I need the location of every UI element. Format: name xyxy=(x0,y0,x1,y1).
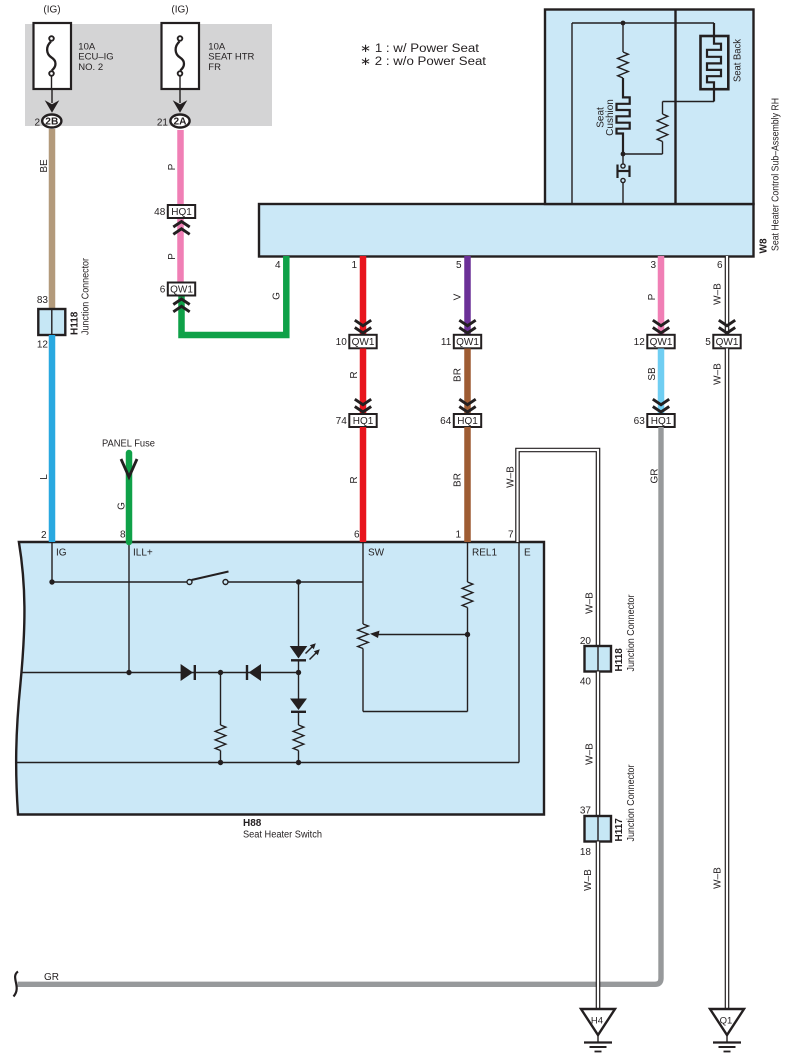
svg-text:GR: GR xyxy=(650,469,661,484)
label W-B mid 1 xyxy=(585,592,596,614)
switch contact xyxy=(187,572,229,585)
node wire B / LED xyxy=(296,670,301,675)
svg-text:2: 2 xyxy=(34,118,40,129)
node diode junction xyxy=(218,670,223,675)
W8 upper box xyxy=(545,10,754,205)
wire W-B right lower xyxy=(725,349,730,1010)
label BE xyxy=(39,159,50,173)
resistor R3 (REL1) xyxy=(462,542,473,635)
label W8 xyxy=(759,238,770,253)
pin 4 label xyxy=(275,260,281,271)
svg-text:Junction Connector: Junction Connector xyxy=(81,257,92,335)
resistor R1 xyxy=(215,725,226,763)
wire LED column upper xyxy=(298,582,300,646)
svg-text:5: 5 xyxy=(456,260,462,271)
svg-text:Seat Heater Switch: Seat Heater Switch xyxy=(243,830,322,841)
junction connector H117 (37/18) xyxy=(585,816,612,842)
chevron up 6 xyxy=(173,299,189,312)
pin 1 label switch xyxy=(455,530,461,541)
svg-text:BE: BE xyxy=(39,159,50,173)
pin 3 label bar xyxy=(650,260,656,271)
svg-text:7: 7 xyxy=(508,530,514,541)
wire R lower xyxy=(360,427,367,542)
node seat cushion bottom xyxy=(621,152,626,157)
wire W-B mid lower xyxy=(596,842,601,1010)
resistor R2 (LED) xyxy=(293,725,304,763)
svg-text:11: 11 xyxy=(441,337,452,348)
fuse 1 lead arrow xyxy=(45,89,60,113)
svg-text:NO. 2: NO. 2 xyxy=(78,62,103,73)
svg-text:PANEL Fuse: PANEL Fuse xyxy=(102,439,155,450)
svg-text:P: P xyxy=(647,293,658,300)
connector 6 QW1 xyxy=(160,283,195,296)
label W-B right 2 xyxy=(713,363,724,385)
label W-B E loop xyxy=(506,466,517,488)
svg-text:64: 64 xyxy=(440,416,452,427)
connector 5 QW1 xyxy=(705,335,740,349)
heater element Seat Cushion xyxy=(617,78,630,153)
wire rheostat loop xyxy=(363,635,468,712)
svg-text:21: 21 xyxy=(157,118,169,129)
pin label SW xyxy=(368,548,385,559)
wire GR xyxy=(18,427,662,984)
chevron down P xyxy=(653,320,669,333)
svg-text:6: 6 xyxy=(160,285,166,296)
label Junction Connector H117 xyxy=(626,764,637,842)
wire BR lower xyxy=(464,427,471,542)
connector 10 QW1 xyxy=(336,335,377,349)
label H88 xyxy=(243,818,262,829)
pin 8 label xyxy=(120,530,126,541)
svg-text:Junction Connector: Junction Connector xyxy=(626,764,637,842)
svg-text:W–B: W–B xyxy=(583,869,594,891)
svg-text:HQ1: HQ1 xyxy=(457,416,478,427)
svg-text:H118: H118 xyxy=(70,311,81,335)
node ILL+ xyxy=(126,670,131,675)
label Junction Connector H118 2 xyxy=(626,594,637,672)
ground Q1 xyxy=(710,1009,744,1052)
label 40 xyxy=(580,677,592,688)
svg-text:1: 1 xyxy=(455,530,461,541)
wire A left xyxy=(52,581,187,583)
thermostat (seat cushion) xyxy=(618,156,630,204)
svg-text:H4: H4 xyxy=(591,1016,603,1027)
label L xyxy=(39,474,50,480)
svg-text:Cushion: Cushion xyxy=(605,99,616,136)
svg-text:P: P xyxy=(167,253,178,260)
svg-text:W–B: W–B xyxy=(713,283,724,305)
note w/ power seat xyxy=(360,43,480,55)
svg-text:1: 1 xyxy=(351,260,357,271)
pin 7 label xyxy=(508,530,514,541)
wire SB xyxy=(658,349,665,415)
label H118 ref 2 xyxy=(614,648,625,672)
node IG xyxy=(49,579,54,584)
pin 6 label bar xyxy=(717,260,723,271)
label Seat Cushion xyxy=(596,99,617,136)
svg-text:Seat Heater Control Sub–Assemb: Seat Heater Control Sub–Assembly RH xyxy=(771,98,782,251)
svg-text:GR: GR xyxy=(44,972,59,983)
svg-text:(IG): (IG) xyxy=(43,5,60,16)
note w/o power seat xyxy=(360,56,487,68)
label (IG) fuse 2 xyxy=(171,5,188,16)
svg-text:IG: IG xyxy=(56,548,67,559)
svg-text:W–B: W–B xyxy=(506,466,517,488)
label GR horizontal xyxy=(44,972,59,983)
svg-text:83: 83 xyxy=(37,295,49,306)
pin label IG xyxy=(56,548,67,559)
label 20 xyxy=(580,636,592,647)
junction connector H118 (83/12) xyxy=(38,309,65,335)
svg-text:V: V xyxy=(453,293,464,300)
fuse ECU-IG text xyxy=(78,41,113,73)
wire P right xyxy=(658,256,665,335)
wire G panel fuse xyxy=(126,453,133,542)
svg-text:2B: 2B xyxy=(45,117,58,128)
svg-text:L: L xyxy=(39,474,50,480)
panel fuse arrow xyxy=(121,459,137,477)
wire W8 right resistor top xyxy=(663,101,715,103)
wire SW column xyxy=(362,542,364,582)
wire P fuse to HQ1 xyxy=(177,130,184,206)
pin label E xyxy=(524,548,531,559)
pin 6 label switch xyxy=(354,530,360,541)
chevron down R xyxy=(355,320,371,333)
label Seat Heater Switch xyxy=(243,830,322,841)
label 83 xyxy=(37,295,49,306)
connector 11 QW1 xyxy=(441,335,481,349)
pin label ILL+ xyxy=(133,548,153,559)
pin 1 label bar xyxy=(351,260,357,271)
node LED branch xyxy=(296,579,301,584)
label 18 xyxy=(580,847,592,858)
H88 switch box xyxy=(16,542,544,815)
svg-text:ILL+: ILL+ xyxy=(133,548,153,559)
connector 64 HQ1 xyxy=(440,414,481,427)
svg-text:R: R xyxy=(349,371,360,378)
W8 internal left wire xyxy=(572,23,714,204)
svg-text:W8: W8 xyxy=(759,238,770,253)
rheostat VR1 xyxy=(358,582,369,712)
wire G corner xyxy=(182,256,287,335)
label GR vertical xyxy=(650,469,661,484)
svg-text:W–B: W–B xyxy=(713,363,724,385)
chevron up 48 xyxy=(173,222,189,235)
svg-text:SW: SW xyxy=(368,548,385,559)
chevron down R2 xyxy=(355,399,371,412)
svg-text:12: 12 xyxy=(634,337,646,348)
svg-text:W–B: W–B xyxy=(713,867,724,889)
diode D1 xyxy=(181,664,195,681)
svg-text:HQ1: HQ1 xyxy=(171,207,192,218)
fuse ECU-IG NO.2 (10A) xyxy=(34,23,72,89)
svg-text:QW1: QW1 xyxy=(352,337,375,348)
label R upper xyxy=(349,371,360,378)
wire LED column mid xyxy=(298,673,300,699)
pin 2 label xyxy=(41,530,47,541)
svg-text:12: 12 xyxy=(37,340,49,351)
label PANEL Fuse xyxy=(102,439,155,450)
LED D3 (indicator) xyxy=(290,643,320,672)
resistor W8 right xyxy=(625,102,668,155)
W8 internal divider xyxy=(674,10,676,205)
svg-text:FR: FR xyxy=(208,62,221,73)
svg-text:Q1: Q1 xyxy=(720,1016,733,1027)
svg-text:∗ 2 : w/o Power Seat: ∗ 2 : w/o Power Seat xyxy=(360,56,487,68)
label W-B mid 2 xyxy=(585,743,596,765)
svg-text:R: R xyxy=(349,476,360,483)
label G corner wire xyxy=(272,292,283,300)
svg-text:Seat Back: Seat Back xyxy=(733,38,744,82)
connector 2A pin 21 xyxy=(157,115,190,129)
rheostat wiper arrow xyxy=(370,631,468,638)
connector 74 HQ1 xyxy=(336,414,377,427)
GR wire break squiggle xyxy=(14,972,19,997)
pin 5 label bar xyxy=(456,260,462,271)
svg-text:G: G xyxy=(117,502,128,510)
chevron down V xyxy=(459,320,475,333)
svg-text:2: 2 xyxy=(41,530,47,541)
svg-text:QW1: QW1 xyxy=(170,285,193,296)
ground H4 xyxy=(581,1009,615,1052)
wire V xyxy=(464,256,471,335)
junction connector H118 (20/40) xyxy=(585,646,612,672)
chevron down SB xyxy=(653,399,669,412)
connector 48 HQ1 xyxy=(154,205,195,218)
svg-text:G: G xyxy=(272,292,283,300)
label V xyxy=(453,293,464,300)
pin label REL1 xyxy=(472,548,497,559)
fuse SEAT HTR text xyxy=(208,41,254,73)
svg-text:Junction Connector: Junction Connector xyxy=(626,594,637,672)
svg-text:8: 8 xyxy=(120,530,126,541)
svg-text:H117: H117 xyxy=(614,818,625,842)
node seat cushion top xyxy=(621,21,626,26)
svg-text:3: 3 xyxy=(650,260,656,271)
wire E column xyxy=(518,542,520,763)
chevron down BR xyxy=(459,399,475,412)
svg-text:(IG): (IG) xyxy=(171,5,188,16)
svg-text:5: 5 xyxy=(705,337,711,348)
wire IG column xyxy=(51,542,53,582)
svg-text:6: 6 xyxy=(354,530,360,541)
LED D4 xyxy=(290,699,307,726)
svg-text:H88: H88 xyxy=(243,818,262,829)
svg-text:P: P xyxy=(167,163,178,170)
wire R upper xyxy=(360,256,367,335)
svg-text:H118: H118 xyxy=(614,648,625,672)
svg-text:QW1: QW1 xyxy=(716,337,739,348)
wire diode node down xyxy=(220,673,222,726)
svg-text:HQ1: HQ1 xyxy=(353,416,374,427)
label P right xyxy=(647,293,658,300)
svg-text:∗ 1 : w/ Power Seat: ∗ 1 : w/ Power Seat xyxy=(360,43,480,55)
label 12 xyxy=(37,340,49,351)
svg-text:63: 63 xyxy=(634,416,646,427)
resistor seat cushion series xyxy=(618,23,629,78)
svg-text:10: 10 xyxy=(336,337,348,348)
label BR upper xyxy=(453,368,464,382)
svg-text:6: 6 xyxy=(717,260,723,271)
svg-text:QW1: QW1 xyxy=(456,337,479,348)
W8 connector bar xyxy=(259,204,754,257)
label W-B mid 3 xyxy=(583,869,594,891)
svg-text:E: E xyxy=(524,548,531,559)
svg-text:37: 37 xyxy=(580,806,592,817)
svg-text:20: 20 xyxy=(580,636,592,647)
svg-text:REL1: REL1 xyxy=(472,548,497,559)
label G panel xyxy=(117,502,128,510)
wire R mid xyxy=(360,349,367,415)
heater element Seat Back xyxy=(701,23,729,102)
svg-text:BR: BR xyxy=(453,473,464,487)
connector 12 QW1 xyxy=(634,335,675,349)
svg-text:2A: 2A xyxy=(174,117,187,128)
node REL1 branch xyxy=(465,632,470,637)
wire L xyxy=(49,335,56,542)
svg-text:QW1: QW1 xyxy=(650,337,673,348)
label BR lower xyxy=(453,473,464,487)
svg-text:W–B: W–B xyxy=(585,743,596,765)
svg-text:4: 4 xyxy=(275,260,281,271)
label W-B right 3 xyxy=(713,867,724,889)
label H117 ref xyxy=(614,818,625,842)
connector 63 HQ1 xyxy=(634,414,675,427)
wire A right xyxy=(228,581,363,583)
wire W-B right upper xyxy=(725,256,730,335)
label Junction Connector H118 xyxy=(81,257,92,335)
wire P HQ1 to QW1 xyxy=(177,218,184,283)
wire BE xyxy=(49,129,56,310)
fuse block (gray) xyxy=(25,24,272,126)
chevron down W-B xyxy=(719,320,735,333)
connector 2B pin 2 xyxy=(34,115,61,129)
label SB xyxy=(647,367,658,381)
label P lower xyxy=(167,253,178,260)
wire W-B E loop xyxy=(518,450,599,647)
wire B xyxy=(21,672,299,674)
svg-text:SB: SB xyxy=(647,367,658,381)
ground rail xyxy=(16,762,519,764)
svg-text:40: 40 xyxy=(580,677,592,688)
svg-text:48: 48 xyxy=(154,207,166,218)
diode D2 xyxy=(247,664,261,681)
wire W-B mid xyxy=(596,672,601,817)
label W-B right 1 xyxy=(713,283,724,305)
node rail LED xyxy=(296,760,301,765)
svg-text:W–B: W–B xyxy=(585,592,596,614)
fuse SEAT HTR FR (10A) xyxy=(162,23,200,89)
label P upper xyxy=(167,163,178,170)
label Seat Back xyxy=(733,38,744,82)
svg-text:BR: BR xyxy=(453,368,464,382)
svg-text:74: 74 xyxy=(336,416,348,427)
svg-text:18: 18 xyxy=(580,847,592,858)
wire BR mid xyxy=(464,349,471,415)
label H118 ref xyxy=(70,311,81,335)
wire ILL+ column xyxy=(128,542,130,673)
label R lower xyxy=(349,476,360,483)
label (IG) fuse 1 xyxy=(43,5,60,16)
label 37 xyxy=(580,806,592,817)
label Seat Heater Control Sub-Assembly RH xyxy=(771,98,782,251)
fuse 2 lead arrow xyxy=(173,89,188,113)
svg-text:HQ1: HQ1 xyxy=(651,416,672,427)
node rail R1 xyxy=(218,760,223,765)
